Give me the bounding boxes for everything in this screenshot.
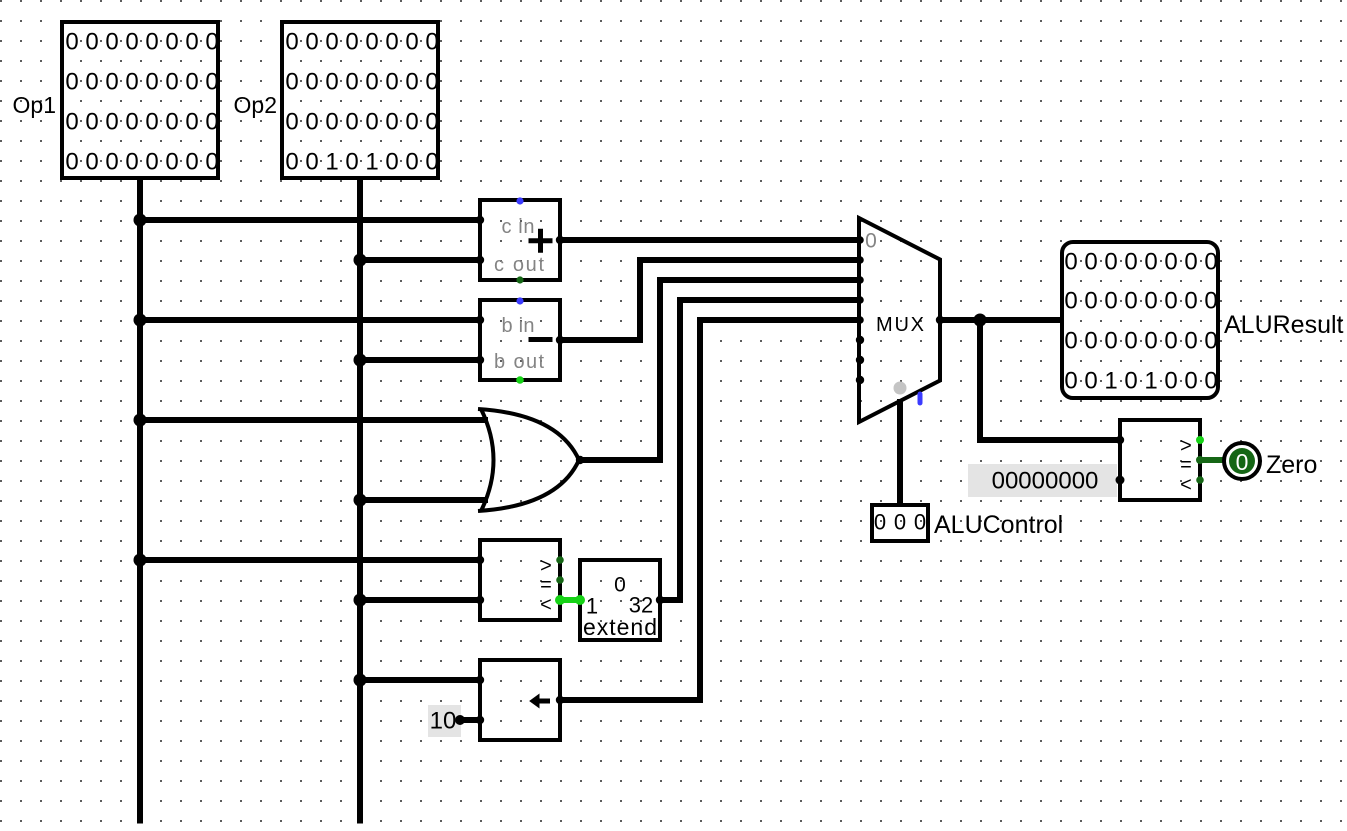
MUX select disc bbox=[894, 382, 907, 395]
junction Op2 bus / shifter wire bbox=[354, 674, 367, 687]
wire adder output to MUX input 0 bbox=[558, 237, 862, 243]
wire Zero comparator equals output to Zero pin (value 0) bbox=[1200, 457, 1226, 463]
subtractor U2 bbox=[480, 300, 560, 380]
comparator greater output pin (0, dark green) bbox=[556, 556, 564, 564]
adder carry-out pin (0, dark green) bbox=[516, 276, 523, 283]
constant 00000000 (Zero compare value) bbox=[968, 464, 1125, 497]
wire Op2 to subtractor input B bbox=[360, 357, 482, 363]
comparator equal output pin (0, dark green) bbox=[556, 576, 564, 584]
svg-text:b in: b in bbox=[502, 315, 535, 337]
comparator U4 bbox=[480, 540, 560, 620]
svg-text:10: 10 bbox=[430, 708, 457, 735]
wire OR gate output to MUX input 2 bbox=[578, 280, 862, 460]
wire Op1 to OR gate input A bbox=[140, 417, 488, 423]
MUX output port dot bbox=[936, 316, 944, 324]
wire comparator less-than output to bit extender (value 1) bbox=[558, 597, 582, 603]
Zero comparator input A port dot bbox=[1116, 436, 1124, 444]
wire Op2 to OR gate input B bbox=[360, 497, 488, 503]
multiplexer MUX bbox=[859, 218, 940, 422]
shifter port dots bbox=[476, 676, 484, 684]
wire ALUControl to MUX select bbox=[897, 399, 903, 507]
bit extender input pin (1, bright green) bbox=[575, 595, 585, 605]
Zero comparator equal junction (dark green) bbox=[1196, 456, 1204, 464]
wire MUX output to ALUResult bbox=[938, 317, 1062, 323]
svg-text:0: 0 bbox=[865, 230, 877, 253]
subtractor borrow-out pin (1, bright green) bbox=[516, 376, 524, 384]
adder port dots bbox=[476, 216, 484, 224]
adder U1 bbox=[480, 200, 560, 280]
svg-text:=: = bbox=[1180, 454, 1192, 476]
junction Op2 bus / adder wire bbox=[354, 254, 367, 267]
constant 10 (shift amount) bbox=[428, 705, 465, 737]
input pin Op2 (32-bit) bbox=[282, 22, 439, 178]
svg-text:MUX: MUX bbox=[876, 314, 924, 336]
wire Op2 to shifter input A bbox=[360, 677, 482, 683]
svg-text:0: 0 bbox=[1236, 449, 1249, 475]
svg-text:Zero: Zero bbox=[1266, 451, 1317, 479]
wire subtractor output to MUX input 1 bbox=[558, 260, 862, 340]
svg-text:00000000: 00000000 bbox=[992, 468, 1099, 495]
comparator less output pin (1, bright green) bbox=[555, 595, 565, 605]
junction Op2 bus / comparator wire bbox=[354, 594, 367, 607]
svg-text:=: = bbox=[540, 574, 552, 596]
junction Op1 bus / comparator wire bbox=[134, 554, 147, 567]
junction Op1 bus / subtractor wire bbox=[134, 314, 147, 327]
svg-text:Op2: Op2 bbox=[234, 92, 277, 118]
svg-text:<: < bbox=[1180, 474, 1192, 496]
wire bit extender output to MUX input 3 bbox=[658, 300, 862, 600]
wire Op1 to comparator input A bbox=[140, 557, 482, 563]
wire Op2 to comparator input B bbox=[360, 597, 482, 603]
comparator input port dots bbox=[476, 556, 484, 564]
OR gate U3 bbox=[478, 409, 579, 511]
bit extender output port dot bbox=[656, 596, 664, 604]
svg-text:b out: b out bbox=[494, 351, 544, 373]
MUX unconnected input stubs bbox=[856, 336, 864, 344]
OR gate output port dot bbox=[576, 456, 584, 464]
input pin Op1 (32-bit) bbox=[62, 22, 219, 178]
wire Op1 to adder input A bbox=[140, 217, 482, 223]
Zero comparator less output pin (0, dark green) bbox=[1196, 476, 1204, 484]
svg-text:ALUResult: ALUResult bbox=[1224, 311, 1344, 339]
junction Op1 bus / OR wire bbox=[134, 414, 147, 427]
wire Op2 to adder input B bbox=[360, 257, 482, 263]
svg-text:<: < bbox=[540, 594, 552, 616]
Zero comparator greater output pin (1, bright green) bbox=[1196, 436, 1204, 444]
junction MUX output / Zero branch bbox=[974, 314, 987, 327]
svg-text:Op1: Op1 bbox=[13, 92, 56, 118]
wire MUX output branch down to Zero comparator input A bbox=[980, 320, 1122, 440]
wire Op1 bus vertical bbox=[137, 178, 143, 824]
junction Op2 bus / subtractor wire bbox=[354, 354, 367, 367]
output pin Zero (1-bit, value 0) bbox=[1224, 443, 1260, 479]
shifter U6 bbox=[480, 660, 560, 740]
svg-text:c in: c in bbox=[502, 216, 535, 238]
wire Op2 bus vertical bbox=[357, 178, 363, 824]
MUX enable pin stub (floating, blue) bbox=[918, 394, 923, 403]
output pin ALUResult (32-bit) bbox=[1062, 242, 1218, 398]
MUX input port dots bbox=[856, 236, 864, 244]
wire Op1 to subtractor input A bbox=[140, 317, 482, 323]
subtractor port dots bbox=[476, 316, 484, 324]
svg-text:0: 0 bbox=[614, 574, 626, 597]
wire constant 10 to shifter shift input bbox=[460, 717, 482, 723]
Zero comparator U7 bbox=[1120, 420, 1200, 500]
svg-text:000: 000 bbox=[874, 510, 926, 535]
subtractor borrow-in pin (floating, blue) bbox=[516, 297, 523, 304]
wire shifter output to MUX input 4 bbox=[558, 320, 862, 700]
adder carry-in pin (floating, blue) bbox=[516, 197, 523, 204]
input pin ALUControl (3-bit) bbox=[872, 505, 928, 541]
junction Op2 bus / OR wire bbox=[354, 494, 367, 507]
junction Op1 bus / adder wire bbox=[134, 214, 147, 227]
svg-text:extend: extend bbox=[583, 614, 657, 640]
bit extender U5 bbox=[580, 560, 660, 640]
svg-text:ALUControl: ALUControl bbox=[934, 511, 1063, 539]
